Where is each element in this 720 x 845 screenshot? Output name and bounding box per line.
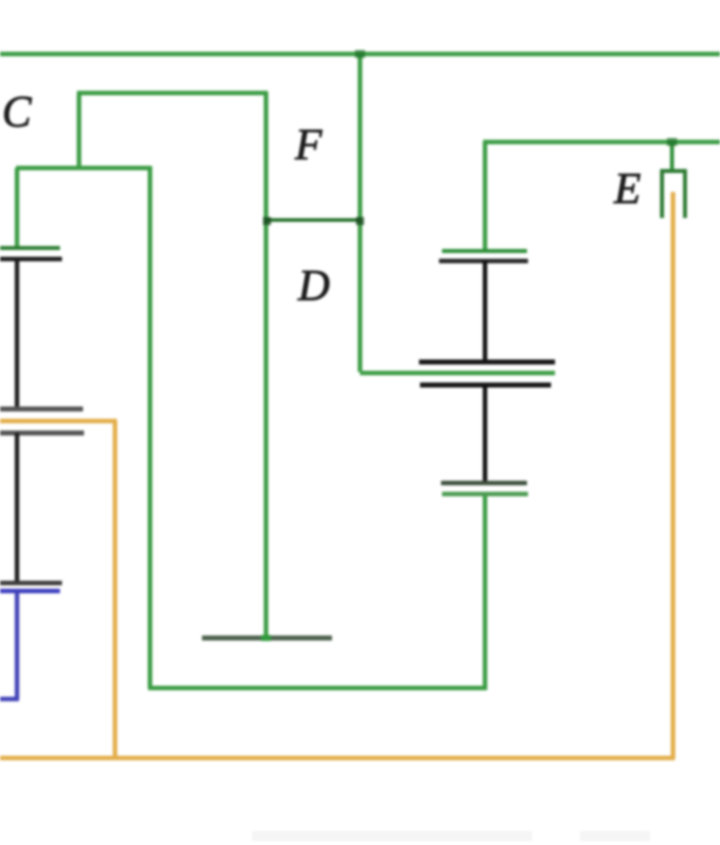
node: F left junction dot (263, 217, 271, 225)
wire: vertical from rail to F node at x=360 (358, 54, 363, 372)
capacitor C3: top plate (green) mid branch (442, 249, 527, 253)
wire: horizontal y=142 right section (483, 140, 720, 145)
wire: black between C4 and C5 at x=485 (483, 385, 488, 483)
wire: black between C2 and C3' at x=17 (15, 433, 20, 583)
node: rail junction at x=360 (355, 50, 365, 58)
wire: horizontal bottom green y=688 (148, 686, 487, 691)
svg-text:E: E (613, 164, 641, 213)
wire: vertical x=17 into capacitor C1 (15, 168, 20, 248)
capacitor C3: bottom plate (dark) (439, 259, 528, 264)
wire: vertical x=266 branch D (264, 93, 269, 637)
switch E: green stem from y=142 (670, 142, 674, 171)
ground bar: D branch terminal y=638 (202, 636, 332, 641)
capacitor C1: top plate (green) (0, 246, 60, 250)
node: D terminal junction (261, 635, 271, 641)
wire: top rail (green) (0, 52, 720, 57)
wire: green tap into capacitor C4 at y=373 (360, 371, 555, 376)
capacitor C1: bottom plate (black) (0, 257, 62, 262)
faint caption remnant bottom (252, 831, 532, 841)
capacitor C5: bottom plate (green) (442, 492, 528, 497)
svg-text:C: C (2, 87, 32, 136)
capacitor C4: bottom plate (black, wide) (420, 383, 551, 388)
wire: orange tap of capacitor C2 y=421 (0, 419, 117, 424)
switch E: green fork (662, 171, 685, 218)
wire: horizontal y=168 from x=16 to x=151 (16, 166, 151, 171)
wire: blue horizontal to left edge y=699 (0, 697, 19, 702)
wire: vertical x=485 into capacitor C3 (483, 142, 488, 249)
wire: vertical x=79 from y=93 to y=168 (77, 93, 82, 168)
capacitor C2: top plate (grey) (0, 407, 83, 412)
wire: black between C1 and C2 at x=17 (15, 259, 20, 409)
capacitor C2: bottom plate (grey) (0, 431, 84, 436)
wire: blue vertical below C3' (15, 591, 20, 699)
wire: orange vertical x=115 (113, 421, 118, 760)
node: F right junction dot (356, 217, 364, 225)
wire: black between C3 and C4 at x=485 (483, 261, 488, 362)
wire: vertical x=485 below capacitor C5 (483, 494, 488, 690)
capacitor C5: top plate (dark green-grey) (441, 481, 527, 486)
wire: horizontal y=93 from x=79 to x=266 (77, 91, 268, 96)
capacitor C3': top plate (dark) (0, 581, 62, 586)
node: junction at x=672 on y=142 wire (667, 138, 677, 146)
capacitor C4: top plate (black, wide) (419, 360, 555, 365)
wire: orange inside fork going down to bottom rail (671, 192, 676, 758)
capacitor C3': bottom plate (blue) (0, 589, 60, 594)
svg-text:F: F (294, 120, 323, 169)
switch F: dark link y=220 between x=266 and x=360 (266, 218, 360, 222)
wire: vertical x=150 long left riser (148, 166, 153, 688)
svg-text:D: D (297, 261, 330, 310)
wire: orange bottom rail y=758 (0, 756, 675, 761)
